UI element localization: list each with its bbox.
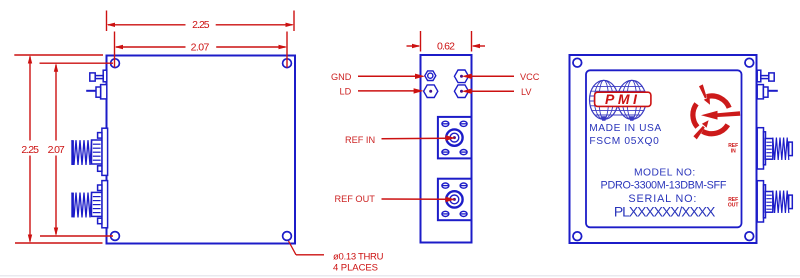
terminal VCC (hex feedthrough) bbox=[454, 70, 468, 83]
enclosure body (top view) bbox=[107, 56, 296, 244]
svg-text:2.25: 2.25 bbox=[192, 19, 210, 31]
terminal LV (hex feedthrough) bbox=[454, 85, 468, 98]
mounting hole bottom-right bbox=[745, 232, 754, 241]
svg-text:2.07: 2.07 bbox=[191, 42, 210, 54]
mounting hole bottom-left bbox=[111, 232, 120, 241]
PMI logo globes bbox=[590, 80, 647, 119]
dimension 0.62 (top) bbox=[407, 31, 486, 52]
PMI banner bbox=[595, 92, 651, 106]
mounting hole top-right bbox=[745, 58, 754, 67]
svg-text:REF OUT: REF OUT bbox=[335, 194, 376, 204]
svg-text:OUT: OUT bbox=[728, 203, 739, 209]
enclosure body (label view) bbox=[570, 55, 757, 243]
svg-text:2.07: 2.07 bbox=[48, 144, 65, 156]
bottom faint scan line bbox=[0, 275, 800, 277]
svg-text:ø0.13 THRU: ø0.13 THRU bbox=[333, 251, 384, 262]
svg-text:LD: LD bbox=[340, 86, 352, 96]
svg-text:IN: IN bbox=[731, 149, 736, 155]
label plate border bbox=[586, 70, 742, 227]
SMA connector J1 (label view, y=148.4) bbox=[757, 128, 792, 169]
terminal LD (hex feedthrough) bbox=[424, 85, 438, 98]
svg-text:GND: GND bbox=[331, 72, 352, 82]
svg-text:VCC: VCC bbox=[520, 72, 540, 82]
feedthrough pin P2 (top view) bbox=[86, 85, 107, 99]
svg-text:REF IN: REF IN bbox=[345, 135, 375, 145]
SMA connector J1 (top view, y=152) bbox=[72, 128, 108, 175]
feedthrough pin P2 (label view) bbox=[757, 85, 778, 99]
SMA jack face REF OUT bbox=[438, 179, 472, 221]
svg-text:PLXXXXXX/XXXX: PLXXXXXX/XXXX bbox=[614, 204, 716, 220]
PMI circular arrows logo bbox=[693, 96, 729, 134]
dimension 2.25 (left vertical) bbox=[14, 55, 103, 243]
svg-text:FSCM 05XQ0: FSCM 05XQ0 bbox=[589, 136, 659, 147]
feedthrough pin P1 (top view) bbox=[90, 70, 107, 82]
svg-text:0.62: 0.62 bbox=[437, 41, 455, 53]
svg-text:MODEL NO:: MODEL NO: bbox=[634, 167, 695, 178]
dimension 2.07 (top horizontal) bbox=[115, 32, 288, 68]
feedthrough pin P1 (label view) bbox=[757, 70, 774, 82]
terminal GND (hex feedthrough) bbox=[425, 71, 436, 81]
mounting hole bottom-right bbox=[283, 232, 292, 241]
svg-text:MADE IN USA: MADE IN USA bbox=[589, 123, 661, 134]
mounting hole top-left bbox=[111, 59, 120, 68]
svg-text:2.25: 2.25 bbox=[21, 144, 39, 156]
enclosure body (side view) bbox=[421, 55, 472, 243]
mounting hole top-left bbox=[573, 58, 582, 67]
SMA connector J2 (label view, y=201.4) bbox=[757, 181, 792, 222]
SMA jack face REF IN bbox=[438, 117, 472, 158]
mounting hole top-right bbox=[283, 59, 292, 68]
svg-text:LV: LV bbox=[521, 87, 532, 97]
globe stands bbox=[601, 116, 607, 121]
svg-text:4 PLACES: 4 PLACES bbox=[333, 263, 378, 274]
mounting hole bottom-left bbox=[573, 232, 582, 241]
leader: hole size callout bbox=[289, 241, 325, 255]
dimension 2.07 (left vertical) bbox=[40, 63, 114, 236]
SMA connector J2 (top view, y=204) bbox=[72, 181, 108, 228]
svg-text:PMI: PMI bbox=[605, 91, 640, 107]
dimension 2.25 (top horizontal) bbox=[107, 11, 295, 32]
svg-text:PDRO-3300M-13DBM-SFF: PDRO-3300M-13DBM-SFF bbox=[601, 180, 727, 192]
